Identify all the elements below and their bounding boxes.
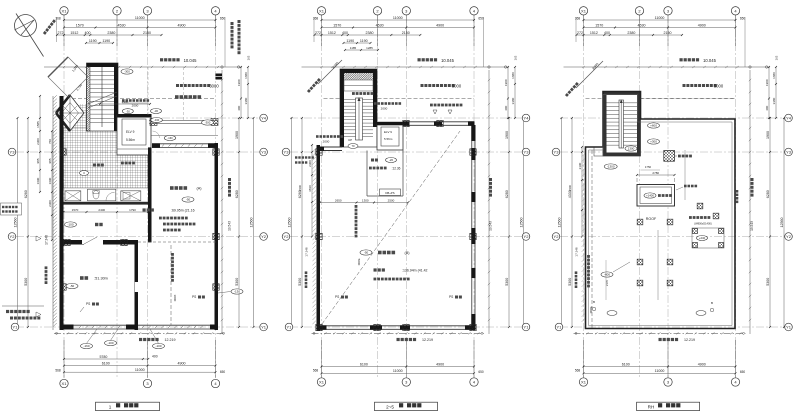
svg-text:Y3: Y3 [786,150,792,155]
fire line vertical dashed 1F [171,245,177,325]
svg-text:X1: X1 [581,380,587,385]
svg-text:368: 368 [55,17,61,21]
hall partition walls 2F [367,150,403,196]
svg-text:1512: 1512 [328,31,336,35]
svg-text:5780: 5780 [99,355,107,359]
svg-text:2780: 2780 [652,171,659,175]
grid lines mid plan [290,15,522,379]
grid bubbles bottom right plan [579,378,739,386]
svg-text:-50: -50 [364,251,369,255]
site boundary label 12.219 right [659,338,696,342]
svg-text:2150: 2150 [402,31,410,35]
entry markers 3-5F 2F [430,104,462,114]
adjacent site boundary label 19.543 left [228,178,232,231]
svg-text:11000: 11000 [393,369,403,373]
svg-text:Y3: Y3 [10,150,16,155]
Y grid bubbles left mid plan [282,148,293,331]
title box 1F plan [96,402,160,410]
svg-text:2190: 2190 [578,162,582,169]
svg-text:5000: 5000 [714,84,724,89]
svg-text:2~5: 2~5 [386,404,394,409]
svg-text:163: 163 [775,55,779,60]
escape stair distance notes 2F [316,102,401,143]
svg-text:1750: 1750 [645,165,652,169]
entrance door swing 1F [153,131,160,138]
svg-text:5000: 5000 [357,259,361,266]
svg-text:(A): (A) [196,187,202,191]
svg-text:4530: 4530 [638,23,646,27]
east exterior wall tenant A 1F [215,143,219,330]
fire spread setback dashed line right plan [586,84,736,99]
site boundary label 12.219 mid [397,338,434,342]
svg-text:4530: 4530 [118,23,126,27]
svg-text:+600: +600 [650,124,657,128]
svg-text:1900: 1900 [235,131,239,139]
adjacent site boundary line left [221,70,223,334]
svg-text:Y2: Y2 [261,234,267,239]
upper right dim stack left plan [237,55,251,119]
interior dim row 2F [319,198,409,203]
svg-text:11000: 11000 [135,368,145,372]
svg-text:5.56m: 5.56m [126,138,135,142]
svg-text:6280: 6280 [766,190,770,198]
road boundary 17.348 label left side left [0,0,1,1]
svg-text:Y1: Y1 [786,325,792,330]
svg-text:2380: 2380 [107,31,115,35]
svg-text:-300: -300 [124,70,130,74]
svg-text:650: 650 [740,17,746,21]
svg-text:272: 272 [58,31,64,35]
svg-text:12560: 12560 [287,218,291,228]
svg-text:UP: UP [348,138,352,142]
right side vertical dimensions left plan [235,117,255,328]
east exterior wall 2F [471,125,475,330]
svg-text:Y3: Y3 [554,150,560,155]
svg-text:6260: 6260 [24,190,28,198]
stair note exterior escape stair 2F [352,92,373,95]
svg-text:3380: 3380 [772,97,776,104]
svg-text:400: 400 [604,31,610,35]
PS labels 1F [80,295,205,312]
svg-text:1285: 1285 [366,46,373,50]
svg-text:-100: -100 [155,344,161,348]
svg-text:1512: 1512 [590,31,598,35]
svg-text:ELV 9: ELV 9 [384,130,392,134]
right side vertical dimensions right plan [766,117,785,328]
parking leader ellipses 1F [122,109,213,141]
svg-text:Y2: Y2 [284,234,290,239]
Y grid bubbles left left plan [8,148,19,331]
svg-text:1190: 1190 [89,39,97,43]
parking top ellipse 1F [121,69,133,74]
svg-text:4900: 4900 [436,23,444,27]
svg-text:2170: 2170 [605,279,609,286]
Y grid bubbles right left plan [260,114,268,331]
level ellipses RH [601,123,660,277]
Y grid bubbles left right plan [552,148,563,331]
north wall tenant A with shutter 1F [152,143,218,148]
svg-text:568: 568 [313,369,319,373]
svg-text:3000: 3000 [209,84,219,89]
tiled vestibule strip 1F [64,104,87,128]
svg-text:1900: 1900 [765,79,769,86]
room label tenant A 1F [170,186,202,202]
svg-text:650: 650 [740,370,746,374]
stair bulkhead RH [603,92,641,157]
diagonal road boundary corner 2F [307,60,342,93]
svg-text:-50: -50 [70,284,75,288]
south exterior wall 2F [317,325,476,330]
svg-text:1900: 1900 [505,131,509,139]
svg-text::12.36: :12.36 [392,167,401,171]
svg-text::136.94m (41.42: :136.94m (41.42 [402,269,428,273]
svg-text:11000: 11000 [655,369,665,373]
road width note bottom-left 1F [2,306,44,320]
storage closet with cross 1F [65,191,81,201]
svg-text:5300: 5300 [766,278,770,286]
svg-text:PS: PS [335,295,339,299]
site boundary label 12.219 left [139,338,176,342]
svg-text:PS: PS [192,295,196,299]
svg-text:4900: 4900 [178,362,186,366]
utility room with cross 1F [121,191,141,201]
stair block 2F [340,69,377,148]
svg-text:19.543: 19.543 [750,221,754,231]
svg-text:Y2: Y2 [786,234,792,239]
svg-text:Y2: Y2 [554,234,560,239]
svg-text:368: 368 [575,17,581,21]
escape hatch RH [664,151,692,162]
grid lines left plan [16,15,260,379]
north exterior wall 2F [403,121,475,126]
grid bubbles bottom mid plan [317,378,478,386]
svg-text:-160: -160 [167,136,173,140]
svg-text:12560: 12560 [249,217,253,227]
south exterior wall 1F [60,325,219,330]
svg-text:-130: -130 [234,290,240,294]
svg-text:Y4: Y4 [261,116,267,121]
svg-text:Y3: Y3 [524,150,530,155]
sub dims 1185 row 2F [344,46,379,51]
bottom boundary line mid plan [312,332,485,334]
stair landing step RH [594,147,603,156]
diagonal road boundary label 3.040 1F [43,19,83,91]
west boundary hatch RH [582,149,585,323]
title box 2-5F plan [375,402,438,410]
upper right dim stack mid plan [504,55,518,119]
grid bubbles bottom left plan [60,379,220,387]
svg-text:-100: -100 [67,223,73,227]
fire line vertical dashed RH [587,150,593,328]
svg-text:568: 568 [575,369,581,373]
road boundary line 10.045 right plan [564,58,771,68]
fire spread diagonal dashed line 2F [322,131,460,324]
svg-text:RH: RH [648,404,655,409]
WC room 1F [88,189,116,201]
adjacent site boundary line mid [488,70,490,334]
svg-text:2300: 2300 [298,184,302,191]
svg-text:PS: PS [86,302,90,306]
svg-text:5000: 5000 [589,307,593,314]
svg-text:163: 163 [247,55,251,60]
svg-text:368: 368 [313,17,319,21]
svg-text:11000: 11000 [135,16,145,20]
svg-text:3810: 3810 [308,185,312,192]
elevator ELV 2F [377,122,403,150]
svg-text:17.348: 17.348 [45,235,49,245]
fire spread setback dashed line left plan [66,84,219,99]
svg-text:Y3: Y3 [284,150,290,155]
upper right dim stack right plan [765,55,779,119]
svg-text:400: 400 [152,355,158,359]
adjacent site boundary line right [749,70,751,334]
right side vertical dimensions mid plan [505,117,525,328]
svg-text:-30: -30 [126,109,130,113]
svg-text:X1: X1 [62,381,68,386]
svg-text:2650: 2650 [335,198,342,202]
svg-text:11000: 11000 [655,16,665,20]
columns on walls 1F [60,149,219,290]
roof parapet outline RH [586,92,736,329]
svg-text:1570: 1570 [72,208,79,212]
svg-text:17.348: 17.348 [575,247,579,257]
svg-text:1900: 1900 [504,79,508,86]
svg-text:11000: 11000 [393,16,403,20]
room label garage 51.30m 1F [66,276,108,288]
svg-text:1680: 1680 [772,72,776,79]
svg-text:19.543: 19.543 [489,221,493,231]
svg-text:1300: 1300 [362,198,369,202]
svg-text:1570: 1570 [333,23,341,27]
svg-text:ELV 9: ELV 9 [126,130,135,134]
svg-text:3000: 3000 [173,295,177,302]
bottom leader ellipses 1F [81,329,165,349]
svg-text:PS: PS [449,295,453,299]
svg-text:650: 650 [478,370,484,374]
west exterior wall 1F [60,96,64,330]
outer canopy diamond outline 1F [48,57,88,97]
svg-text:1185: 1185 [350,46,357,50]
svg-text:12.219: 12.219 [422,338,433,342]
roof drain markers RH [592,300,714,315]
svg-text:2150: 2150 [664,31,672,35]
svg-text:Y1: Y1 [287,325,293,330]
Y grid bubbles right right plan [785,114,793,331]
road boundary 17.348 label left side right [568,184,579,288]
svg-text:-100: -100 [107,341,113,345]
svg-text:-30: -30 [154,109,158,113]
svg-text:Y4: Y4 [524,116,530,121]
road boundary 17.348 label left side mid [298,184,309,288]
svg-text:2400: 2400 [98,208,105,212]
svg-text:1690: 1690 [36,177,40,184]
adjacent site boundary label 19.543 mid [489,178,493,231]
title box RH plan [637,402,700,410]
road boundary label 17.348 1F [45,235,49,284]
svg-text:5.56m: 5.56m [384,137,393,141]
area note tenant A 1F [143,208,196,231]
svg-text:-1300: -1300 [607,165,615,169]
svg-text:Y1: Y1 [261,325,267,330]
svg-text:X1: X1 [62,8,68,13]
svg-text:1570: 1570 [595,23,603,27]
svg-text:12560: 12560 [519,218,523,228]
svg-text:1900: 1900 [766,131,770,139]
bottom dimensions right plan [575,340,746,378]
svg-text:3380: 3380 [511,97,515,104]
cubicle equipment RH [689,216,724,248]
left side vertical dimensions mid plan [287,117,313,328]
svg-text:1190: 1190 [360,39,368,43]
bottom boundary line left plan [54,332,226,334]
svg-text:12.219: 12.219 [684,338,695,342]
svg-text:ROOF: ROOF [646,217,657,221]
hall labels 2F [369,158,401,171]
road width note right 1F [231,20,241,54]
svg-text:2300: 2300 [48,200,52,207]
electric pole box 1F [216,74,223,80]
svg-text:272: 272 [577,31,583,35]
storage dividing wall 1F [148,147,152,242]
svg-text::69.95m (21.16: :69.95m (21.16 [171,209,195,213]
svg-text:(B): (B) [404,251,410,255]
svg-text:1790: 1790 [129,208,136,212]
svg-text:400: 400 [342,31,348,35]
svg-text:2900: 2900 [122,100,129,104]
svg-text:272: 272 [315,31,321,35]
parking divider line 1F [148,67,184,120]
svg-text:5000: 5000 [452,84,462,89]
svg-text:X1: X1 [319,380,325,385]
skylight penthouse RH [636,171,675,206]
columns 2F [316,120,476,330]
bottom dimensions mid plan [313,340,484,378]
left side vertical dimensions right plan [557,117,583,328]
machine note RH [676,185,738,203]
entrance hall tiled floor 1F [64,128,149,188]
tenant B label 2F [360,250,410,255]
garage dividing wall 1F [135,240,139,330]
svg-text:400: 400 [85,31,91,35]
parking space label 1F [175,95,201,99]
svg-text:12560: 12560 [557,218,561,228]
svg-text:(W800xD1400): (W800xD1400) [694,222,712,226]
svg-text:-600: -600 [604,273,610,277]
leader ellipse -130 right side 1F [218,289,243,294]
svg-text:2300: 2300 [568,184,572,191]
roof internal dims RH [605,165,660,300]
svg-text:5300: 5300 [568,278,572,286]
elevator ELV 1F [117,114,152,155]
svg-text:19.543: 19.543 [228,221,232,231]
sub dimension 1190 row left [85,39,114,44]
svg-text:1190: 1190 [346,39,354,43]
svg-text:Y1: Y1 [524,325,530,330]
area note tenant B 2F [374,268,428,280]
svg-text:4900: 4900 [178,23,186,27]
grid lines right plan [560,15,785,379]
svg-text:X1: X1 [581,8,587,13]
svg-text:568: 568 [55,369,61,373]
interior dashed guide lines RH [641,99,736,301]
upper floor canopy line over parking 1F [149,119,218,136]
svg-text:Y2: Y2 [524,234,530,239]
entrance side note 2F [295,156,314,163]
fixture row bottom wall 1F [64,202,149,205]
left side vertical dimensions left plan [13,95,53,328]
svg-text:-300: -300 [205,121,211,125]
svg-text:760: 760 [48,139,52,144]
svg-text:1: 1 [109,404,112,409]
svg-text:650: 650 [220,370,226,374]
boundary markers west 1F [36,236,41,317]
grid bubbles top left plan [60,7,220,15]
svg-text:-20: -20 [389,158,393,162]
svg-text:-340: -340 [154,118,160,122]
svg-text:4900: 4900 [698,362,706,366]
svg-text:1690: 1690 [48,177,52,184]
svg-text:2300: 2300 [308,160,312,167]
svg-text:2500: 2500 [388,198,395,202]
PS labels 2F [335,295,462,299]
svg-text:650: 650 [478,17,484,21]
svg-text:10.045: 10.045 [441,58,454,63]
svg-text:1585: 1585 [36,121,40,128]
svg-text:6100: 6100 [360,362,368,366]
interior dim 2900 1F [99,100,151,105]
svg-text:X1: X1 [319,8,325,13]
svg-text:400: 400 [504,105,508,110]
bottom boundary line right plan [574,332,746,334]
svg-text:Y2: Y2 [10,234,16,239]
svg-text:985: 985 [48,158,52,163]
svg-text:5300: 5300 [505,278,509,286]
diagonal road boundary corner RH [565,61,603,97]
svg-text:400: 400 [765,105,769,110]
svg-text:12560: 12560 [780,218,784,228]
svg-text:6280: 6280 [235,190,239,198]
north arrow compass [15,14,44,57]
svg-text:B: B [593,300,595,304]
svg-text:2000: 2000 [323,140,330,144]
svg-text::51.30m: :51.30m [94,277,108,281]
stair core 1F [87,63,119,131]
top dimensions right plan [575,15,746,67]
svg-text:+1400: +1400 [646,194,654,198]
svg-text:-160: -160 [83,344,89,348]
entrance wall with door 2F [320,147,342,152]
svg-text:B: B [711,301,713,305]
grid bubbles top right plan [579,7,739,15]
svg-text:Y1: Y1 [557,325,563,330]
svg-text:10.045: 10.045 [703,58,716,63]
west exterior wall 2F [317,145,321,331]
fire spread setback dashed line mid plan [324,84,475,99]
bottom dimensions left plan [55,340,225,378]
svg-text:4900: 4900 [698,23,706,27]
svg-text:1300: 1300 [628,147,635,151]
svg-text:DB+PS: DB+PS [385,191,394,195]
svg-text:2380: 2380 [366,31,374,35]
road boundary line 10.045 left plan [44,58,242,68]
svg-text:Y3: Y3 [261,150,267,155]
svg-text:Y4: Y4 [786,116,792,121]
svg-text:5300: 5300 [235,278,239,286]
svg-text:4900: 4900 [436,362,444,366]
svg-text:1570: 1570 [76,23,84,27]
svg-text:+240: +240 [699,236,706,240]
svg-text:2380: 2380 [627,31,635,35]
